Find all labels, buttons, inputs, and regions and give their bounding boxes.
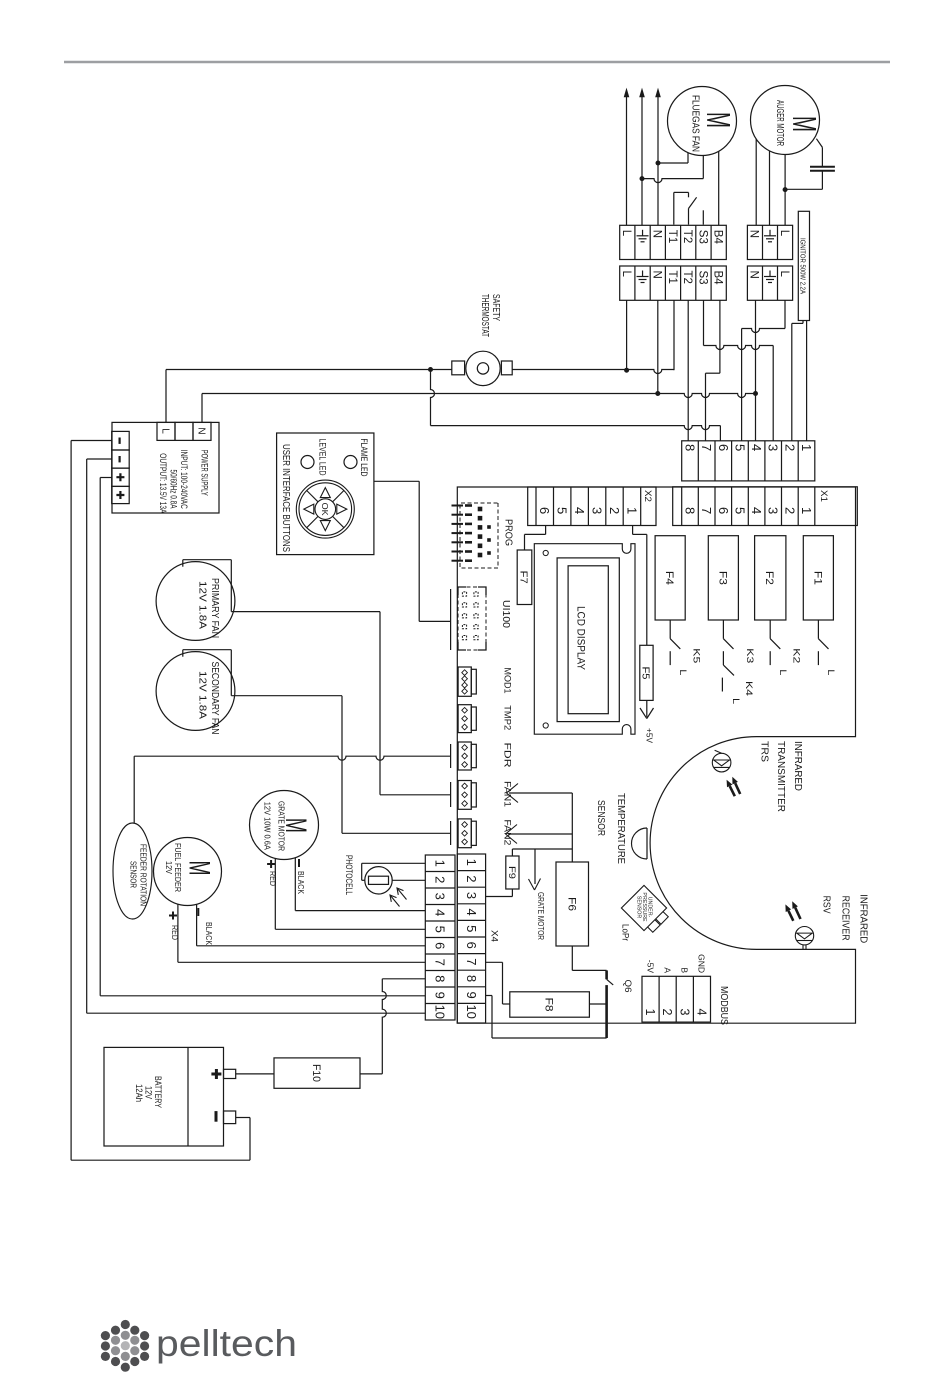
svg-text:N: N [748, 230, 760, 238]
connector FAN1 [458, 781, 512, 810]
wire PSU N up [201, 394, 203, 423]
svg-text:INFRARED: INFRARED [792, 741, 804, 791]
svg-text:B4: B4 [712, 271, 724, 286]
wire L cell down to junction [624, 300, 629, 372]
terminal block upper-left L/PE/N/T1/T2/S3/B4 [620, 225, 727, 259]
svg-text:SENSOR: SENSOR [595, 800, 607, 836]
label SAFETY THERMOSTAT [479, 294, 501, 337]
svg-text:2: 2 [464, 875, 479, 882]
wire fuel feeder minus BLACK to X4 pin6 [197, 904, 426, 946]
connector FDR [458, 742, 512, 770]
wire feeder rotation sensor to FDR [134, 756, 450, 823]
wire B4 cell to X1 pin7 [706, 300, 720, 441]
svg-text:F6: F6 [565, 897, 577, 911]
svg-text:FLAME LED: FLAME LED [358, 439, 369, 477]
wire PSU minus2 [87, 458, 112, 460]
svg-text:1: 1 [643, 1009, 657, 1016]
wire ignitor left to X1 pin2 [792, 321, 803, 441]
wire mains L arrow [624, 88, 630, 98]
capacitor auger motor run cap [785, 139, 835, 190]
svg-text:PROG: PROG [503, 519, 514, 546]
sensor FEEDER ROTATION SENSOR [113, 823, 152, 919]
LCD display module [534, 544, 635, 735]
svg-text:3: 3 [464, 892, 479, 899]
wire grate motor minus BLACK to X4 pin4 [295, 858, 425, 911]
wire X2 pin1 to F5 [633, 526, 647, 646]
wire right N cell to N-run and X1 pin4 [753, 300, 758, 441]
svg-text:F2: F2 [763, 571, 775, 585]
svg-text:X1: X1 [818, 490, 829, 502]
svg-text:7: 7 [433, 959, 448, 966]
wire auger lead N [755, 139, 757, 225]
svg-text:SENSOR: SENSOR [636, 896, 642, 919]
fuse F6 [556, 862, 589, 946]
connector X4 board column 1-10 [457, 854, 499, 1023]
svg-text:5: 5 [464, 925, 479, 932]
battery 12V 12Ah [104, 1047, 236, 1146]
svg-text:S3: S3 [696, 271, 708, 285]
wire FDR external bar [450, 744, 452, 768]
svg-text:THERMOSTAT: THERMOSTAT [479, 294, 490, 337]
wire PSU minus2 to X4 pin10 [87, 459, 426, 1013]
svg-text:1: 1 [464, 859, 479, 866]
svg-text:4: 4 [694, 1009, 708, 1016]
svg-text:2: 2 [782, 444, 797, 451]
node L under K4 [731, 698, 741, 704]
svg-text:UI100: UI100 [500, 600, 511, 628]
svg-text:M: M [183, 861, 216, 876]
svg-text:2: 2 [433, 876, 448, 883]
wire N cell down to N-run [655, 300, 660, 396]
wire F9 top run to F6 [512, 849, 572, 856]
fuse F4 [655, 536, 685, 620]
svg-text:3: 3 [590, 507, 605, 514]
fuse F7 [517, 550, 532, 605]
wire grate motor plus RED to X4 pin5 [267, 858, 425, 929]
svg-text:-5V: -5V [645, 960, 655, 974]
relay contact K1 [818, 620, 828, 665]
fuse F8 [510, 992, 590, 1017]
relay contact K2 [770, 620, 801, 665]
svg-text:TMP2: TMP2 [502, 705, 513, 730]
wire photocell right to X4 pin2 [392, 879, 425, 881]
wire PSU plus3 [100, 477, 112, 479]
svg-text:7: 7 [464, 958, 479, 965]
svg-text:RSV: RSV [821, 896, 833, 914]
arrows RSV incoming [785, 901, 800, 921]
svg-text:GND: GND [697, 954, 707, 973]
wire UI box to UI100 [374, 481, 451, 621]
wire L run (PSU-L / thermostat / T1) [166, 367, 674, 374]
svg-text:B4: B4 [712, 230, 724, 245]
header rule [64, 61, 890, 64]
svg-text:MODBUS: MODBUS [718, 986, 729, 1025]
svg-text:L: L [160, 428, 171, 434]
svg-text:N: N [651, 230, 663, 238]
svg-text:12V 1.8A: 12V 1.8A [196, 671, 207, 719]
LED infrared receiver RSV [795, 927, 813, 950]
svg-text:F3: F3 [716, 571, 728, 585]
svg-text:5: 5 [433, 926, 448, 933]
svg-text:F5: F5 [640, 667, 651, 680]
wire X2 pin6 to F7 [525, 526, 546, 551]
connector X4 external column 1-10 [425, 855, 455, 1020]
wire ignitor right to X1 pin1 [806, 321, 808, 441]
terminal block lower-left L/PE/N/T1/T2/S3/B4 [620, 266, 727, 300]
svg-text:OUTPUT: 13.5V 13A: OUTPUT: 13.5V 13A [158, 453, 168, 513]
connector MOD1 [458, 667, 512, 696]
svg-text:pelltech: pelltech [156, 1323, 297, 1364]
switch S3 thermostat contact [674, 192, 704, 224]
fuse F3 [708, 536, 738, 620]
relay contact K5 [670, 620, 701, 665]
wire F8 to Q6 [589, 1003, 606, 1005]
fuse F5 [640, 645, 653, 700]
controller board outline with burner arc [457, 487, 855, 1023]
node +5V arrow under F5 [640, 700, 654, 743]
wire mains L to terminal L [626, 95, 628, 225]
svg-text:12V 1.8A: 12V 1.8A [196, 581, 207, 629]
svg-text:F10: F10 [310, 1064, 322, 1082]
svg-text:6: 6 [537, 507, 552, 514]
svg-text:SENSOR: SENSOR [128, 861, 138, 888]
relay contact K3 [723, 620, 754, 665]
fan SECONDARY FAN [156, 650, 235, 735]
svg-text:TEMPERATURE: TEMPERATURE [615, 793, 627, 864]
svg-text:L: L [826, 669, 836, 675]
wire FAN2 external bar [450, 821, 452, 845]
svg-text:12V 10W 0.6A: 12V 10W 0.6A [263, 802, 273, 850]
arrow to GRATE MOTOR label [529, 849, 546, 940]
wire thermostat branch to X1 pin6 [431, 370, 721, 441]
svg-text:L: L [778, 271, 790, 278]
svg-text:4: 4 [572, 507, 587, 514]
svg-text:L: L [731, 698, 741, 704]
wire F6 bottom to Q6 [572, 946, 606, 970]
svg-text:8: 8 [464, 975, 479, 982]
connector X1 board header 8..1 [673, 487, 858, 526]
wire secondary fan to FAN2 [231, 696, 450, 834]
wire fluegas fan lead 1 [658, 153, 688, 164]
svg-text:FDR: FDR [502, 743, 513, 768]
user interface buttons box [277, 433, 374, 555]
svg-text:N: N [196, 427, 207, 434]
fuse F9 [506, 856, 519, 889]
svg-text:F9: F9 [506, 866, 517, 879]
svg-text:TRANSMITTER: TRANSMITTER [775, 741, 787, 812]
motor GRATE MOTOR [250, 791, 319, 860]
wire battery minus loop to PSU [71, 441, 250, 1161]
wire S3 cell to X1 pin3 [704, 300, 774, 441]
wire X4 pin7 to F8 [486, 962, 510, 1004]
svg-text:3: 3 [766, 507, 781, 514]
svg-text:BATTERY: BATTERY [153, 1076, 163, 1108]
svg-text:MOD1: MOD1 [502, 668, 513, 694]
transistor Q6 [607, 970, 633, 1038]
svg-text:OK: OK [320, 503, 330, 516]
sensor under-pressure LoPr [620, 885, 668, 941]
svg-text:10: 10 [433, 1005, 448, 1019]
svg-text:8: 8 [683, 444, 698, 451]
svg-text:IGNITOR 500W 2.2A: IGNITOR 500W 2.2A [799, 238, 806, 294]
svg-text:SECONDARY FAN: SECONDARY FAN [209, 662, 220, 735]
svg-text:7: 7 [699, 507, 714, 514]
motor FLUEGAS FAN [668, 87, 738, 156]
wire fuel feeder plus RED to X4 pin7 [169, 904, 425, 962]
svg-text:4: 4 [433, 909, 448, 916]
label INFRARED RECEIVER RSV [821, 894, 870, 943]
svg-text:K3: K3 [745, 648, 755, 663]
svg-text:N: N [651, 271, 663, 279]
svg-text:FEEDER ROTATION: FEEDER ROTATION [138, 844, 148, 906]
svg-text:5: 5 [555, 507, 570, 514]
svg-text:T2: T2 [681, 230, 693, 243]
resistor ignitor 500W 2.2A [798, 211, 809, 320]
svg-text:T1: T1 [666, 230, 678, 243]
relay contact K4 [722, 665, 754, 696]
svg-text:RED: RED [170, 925, 180, 940]
svg-text:12V: 12V [164, 861, 174, 874]
wire mains PE arrow [639, 88, 645, 98]
wire primary fan to FAN1 [231, 612, 450, 795]
power supply unit [112, 422, 219, 513]
svg-text:K2: K2 [792, 648, 802, 663]
svg-text:2: 2 [782, 507, 797, 514]
wire mains N arrow [655, 88, 661, 98]
wire mains PE to terminal earth [640, 95, 645, 225]
wire mains N to terminal N [656, 95, 661, 225]
svg-text:12Ah: 12Ah [134, 1084, 144, 1102]
sensor PHOTOCELL [343, 855, 407, 907]
svg-text:K4: K4 [744, 681, 754, 696]
wire F6 top with arrows to FAN1 FAN2 [506, 784, 573, 863]
wire battery plus to F10 [236, 1073, 274, 1075]
svg-text:L: L [678, 669, 688, 675]
svg-text:X4: X4 [490, 930, 500, 942]
svg-text:GRATE MOTOR: GRATE MOTOR [536, 892, 546, 940]
fuse F10 [274, 1058, 360, 1088]
svg-text:6: 6 [464, 942, 479, 949]
connector X2 board header 6..1 [528, 487, 656, 526]
wire PSU plus3 to X4 pin9 [100, 478, 425, 996]
wire auger lead L [783, 155, 788, 226]
svg-text:5: 5 [732, 444, 747, 451]
svg-text:F8: F8 [543, 998, 555, 1012]
connector X1 external row 8..1 [682, 441, 815, 481]
svg-text:L: L [620, 230, 632, 237]
svg-text:T1: T1 [666, 271, 678, 284]
safety thermostat [452, 351, 512, 385]
svg-text:F1: F1 [811, 571, 823, 585]
fan PRIMARY FAN [156, 560, 235, 641]
svg-text:K5: K5 [692, 648, 702, 663]
svg-text:BLACK: BLACK [204, 922, 214, 945]
LED infrared transmitter TRS [712, 750, 731, 772]
svg-text:LoPr: LoPr [620, 924, 630, 941]
svg-text:USER INTERFACE BUTTONS: USER INTERFACE BUTTONS [280, 444, 291, 552]
wire thermostat left tab [431, 369, 452, 371]
svg-text:4: 4 [749, 444, 764, 451]
pelltech logo text [156, 1323, 297, 1364]
terminal block lower-right N/PE/L [747, 266, 792, 300]
svg-text:L: L [778, 669, 788, 675]
connector FAN2 [458, 819, 512, 848]
svg-text:F7: F7 [518, 571, 529, 584]
node L under K2 [778, 669, 788, 675]
wire T2 cell down to X1 pin8 [687, 300, 689, 441]
svg-text:5: 5 [732, 507, 747, 514]
wire X4 pin9 to Q6 bottom [486, 996, 607, 1039]
svg-text:POWER SUPPLY: POWER SUPPLY [200, 450, 210, 496]
svg-text:4: 4 [464, 908, 479, 915]
label TEMPERATURE SENSOR [595, 793, 627, 864]
svg-text:3: 3 [766, 444, 781, 451]
fuse F1 [803, 536, 833, 620]
svg-text:1: 1 [625, 507, 640, 514]
wire T1 cell down to L-run [673, 300, 675, 370]
svg-text:RECEIVER: RECEIVER [839, 896, 851, 941]
wire fluegas fan lead 3 to B4 [718, 152, 720, 226]
svg-text:7: 7 [699, 444, 714, 451]
svg-text:10: 10 [464, 1004, 479, 1018]
svg-text:S3: S3 [696, 230, 708, 244]
svg-text:LEVEL LED: LEVEL LED [317, 439, 328, 476]
wire PSU minus1 [71, 440, 112, 442]
svg-text:INPUT: 100-240VAC: INPUT: 100-240VAC [179, 450, 189, 509]
svg-text:SAFETY: SAFETY [490, 294, 501, 321]
svg-text:LCD DISPLAY: LCD DISPLAY [575, 606, 587, 671]
connector TMP2 [458, 705, 512, 733]
wire UI100 external bar [450, 589, 452, 650]
wire auger lead earth [769, 151, 771, 226]
svg-text:FLUEGAS FAN: FLUEGAS FAN [690, 95, 702, 152]
wire F9 bottom to X4 pin3 [486, 889, 513, 897]
svg-text:GRATE MOTOR: GRATE MOTOR [276, 801, 286, 851]
svg-text:6: 6 [433, 942, 448, 949]
connector MODBUS [642, 954, 729, 1025]
svg-text:1: 1 [433, 860, 448, 867]
svg-text:12V: 12V [143, 1086, 153, 1099]
wire PSU L up [165, 370, 167, 423]
svg-text:X2: X2 [642, 490, 653, 502]
svg-text:+5V: +5V [644, 728, 654, 743]
svg-text:T2: T2 [681, 271, 693, 284]
svg-text:50/60Hz 0.8A: 50/60Hz 0.8A [168, 470, 178, 509]
arrows TRS emission [727, 777, 741, 796]
wire N run (PSU-N to right N) [202, 394, 756, 398]
wire fluegas fan lead 2 [642, 155, 703, 182]
svg-text:1: 1 [799, 444, 814, 451]
svg-text:6: 6 [716, 507, 731, 514]
svg-text:4: 4 [749, 507, 764, 514]
svg-text:1: 1 [799, 507, 814, 514]
node L under K5 [678, 669, 688, 675]
svg-text:RED: RED [268, 871, 278, 886]
wire FAN1 external bar [450, 782, 452, 807]
node L under K1 [826, 669, 836, 675]
svg-text:B: B [680, 967, 690, 973]
svg-text:F4: F4 [663, 571, 675, 585]
svg-text:BLACK: BLACK [296, 871, 306, 894]
connector UI100 [458, 587, 511, 650]
terminal block upper-right N/PE/L [747, 225, 792, 259]
svg-text:AUGER MOTOR: AUGER MOTOR [774, 100, 786, 146]
svg-text:2: 2 [607, 507, 622, 514]
svg-text:9: 9 [464, 991, 479, 998]
svg-text:2: 2 [660, 1009, 674, 1016]
svg-text:A: A [663, 967, 673, 973]
motor AUGER MOTOR [751, 86, 824, 155]
pelltech logo dots [101, 1320, 149, 1372]
wire right L cell to X1 pin5 [742, 300, 785, 441]
svg-text:PRIMARY FAN: PRIMARY FAN [209, 578, 220, 638]
svg-text:6: 6 [716, 444, 731, 451]
connector PROG [452, 503, 514, 568]
svg-text:8: 8 [683, 507, 698, 514]
svg-text:L: L [778, 230, 790, 237]
label INFRARED TRANSMITTER TRS [759, 741, 805, 812]
svg-text:M: M [786, 116, 823, 132]
svg-text:Q6: Q6 [623, 980, 633, 993]
svg-text:N: N [748, 271, 760, 279]
svg-text:PHOTOCELL: PHOTOCELL [343, 855, 354, 895]
svg-text:9: 9 [433, 992, 448, 999]
wire F10 to X4 pin8 [360, 979, 425, 1074]
svg-text:TRS: TRS [759, 741, 771, 762]
svg-text:8: 8 [433, 975, 448, 982]
fuse F2 [755, 536, 786, 620]
svg-text:3: 3 [433, 893, 448, 900]
svg-text:L: L [620, 271, 632, 278]
sensor temperature dome [632, 828, 648, 859]
wire photocell top to X4 pin1 [362, 863, 426, 880]
svg-text:M: M [700, 112, 737, 128]
svg-text:INFRARED: INFRARED [857, 894, 869, 943]
svg-text:3: 3 [677, 1009, 691, 1016]
motor FUEL FEEDER [154, 838, 222, 906]
